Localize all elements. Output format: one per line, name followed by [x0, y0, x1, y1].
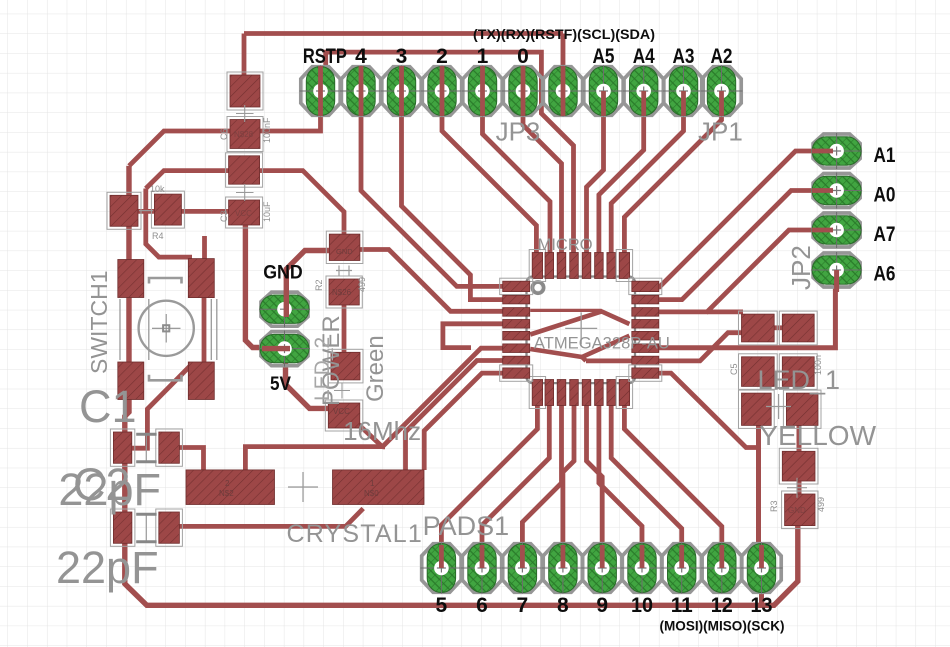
svg-text:1: 1: [477, 45, 489, 68]
svg-text:11: 11: [671, 594, 693, 617]
svg-text:6: 6: [476, 594, 488, 617]
svg-text:A0: A0: [874, 184, 896, 207]
svg-text:A3: A3: [673, 45, 695, 68]
svg-text:R4: R4: [152, 231, 164, 241]
svg-text:499: 499: [816, 497, 826, 512]
svg-text:16Mhz: 16Mhz: [343, 416, 421, 446]
svg-text:ATMEGA328P-AU: ATMEGA328P-AU: [534, 335, 670, 353]
svg-text:JP3: JP3: [496, 117, 541, 147]
svg-text:N$28: N$28: [234, 130, 254, 139]
svg-text:A7: A7: [874, 223, 896, 246]
svg-text:A5: A5: [593, 45, 615, 68]
svg-text:VCC: VCC: [333, 407, 350, 416]
svg-text:R3: R3: [769, 500, 779, 512]
svg-text:5V: 5V: [270, 374, 291, 395]
svg-text:LED_1: LED_1: [758, 365, 841, 395]
svg-text:LED_2: LED_2: [311, 337, 334, 401]
svg-text:1: 1: [370, 479, 375, 488]
svg-text:13: 13: [751, 594, 773, 617]
svg-text:GND: GND: [336, 247, 353, 256]
svg-text:N$2: N$2: [219, 489, 234, 498]
svg-text:100n: 100n: [813, 355, 823, 375]
svg-text:YELLOW: YELLOW: [759, 420, 876, 451]
svg-text:N$0: N$0: [364, 489, 379, 498]
svg-text:100nF: 100nF: [262, 117, 272, 143]
svg-text:CRYSTAL1: CRYSTAL1: [287, 520, 424, 548]
svg-text:0: 0: [517, 45, 529, 68]
svg-text:C3: C3: [219, 210, 229, 222]
svg-text:GND: GND: [263, 263, 303, 284]
svg-text:A2: A2: [711, 45, 733, 68]
svg-text:5: 5: [436, 594, 448, 617]
svg-text:C5: C5: [729, 363, 739, 375]
svg-text:10k: 10k: [150, 184, 165, 194]
svg-text:SWITCH1: SWITCH1: [86, 271, 112, 375]
svg-text:10uF: 10uF: [262, 201, 272, 222]
svg-text:C1: C1: [79, 381, 137, 432]
svg-text:A4: A4: [633, 45, 655, 68]
svg-text:7: 7: [517, 594, 529, 617]
svg-text:N$26: N$26: [332, 288, 352, 297]
svg-text:10: 10: [631, 594, 653, 617]
svg-text:12: 12: [711, 594, 733, 617]
svg-text:JP1: JP1: [698, 117, 743, 147]
svg-text:Green: Green: [362, 335, 389, 402]
svg-text:VCC: VCC: [235, 209, 252, 218]
svg-text:9: 9: [596, 594, 608, 617]
svg-text:3: 3: [396, 45, 408, 68]
svg-text:4: 4: [355, 45, 367, 68]
svg-text:GND: GND: [788, 506, 806, 515]
svg-text:R2: R2: [314, 279, 324, 291]
svg-text:(MOSI)(MISO)(SCK): (MOSI)(MISO)(SCK): [660, 619, 785, 634]
svg-text:RSTP: RSTP: [303, 45, 347, 68]
svg-text:2: 2: [225, 479, 230, 488]
svg-text:PADS1: PADS1: [423, 511, 510, 541]
svg-text:JP2: JP2: [786, 245, 816, 290]
svg-text:MICRO: MICRO: [538, 236, 593, 254]
svg-text:8: 8: [557, 594, 569, 617]
svg-text:A1: A1: [874, 144, 896, 167]
svg-text:2: 2: [436, 45, 448, 68]
svg-text:22pF: 22pF: [58, 464, 161, 515]
svg-text:C6: C6: [219, 128, 229, 140]
svg-text:499: 499: [357, 277, 367, 292]
svg-text:A6: A6: [874, 263, 896, 286]
svg-text:22pF: 22pF: [56, 542, 159, 593]
svg-text:(TX)(RX)(RSTF)(SCL)(SDA): (TX)(RX)(RSTF)(SCL)(SDA): [473, 27, 655, 42]
